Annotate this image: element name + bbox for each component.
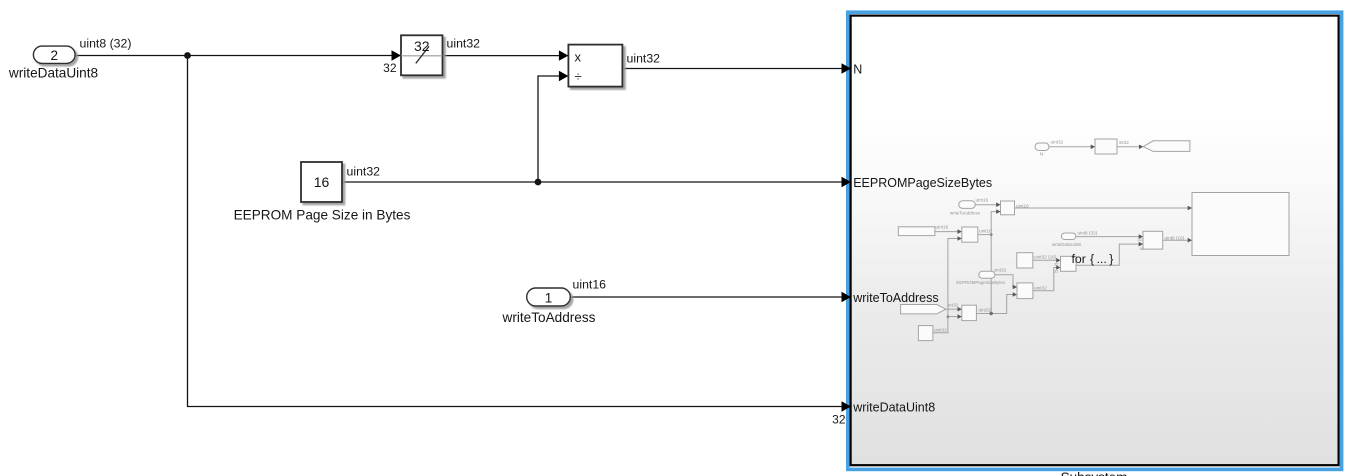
svg-text:int32: int32 bbox=[1119, 140, 1130, 145]
svg-text:writeDataUint8: writeDataUint8 bbox=[8, 65, 98, 80]
svg-text:32: 32 bbox=[1138, 237, 1143, 242]
svg-text:16: 16 bbox=[314, 174, 330, 190]
svg-text:32: 32 bbox=[414, 38, 430, 54]
svg-text:EEPROMPageSizeBytes: EEPROMPageSizeBytes bbox=[956, 280, 1006, 285]
svg-text:for: for bbox=[1072, 252, 1086, 266]
svg-text:uint16: uint16 bbox=[976, 198, 989, 203]
svg-text:EEPROM Page Size in Bytes: EEPROM Page Size in Bytes bbox=[234, 207, 411, 222]
svg-text:N: N bbox=[853, 62, 862, 76]
svg-text:16: 16 bbox=[1139, 246, 1144, 251]
svg-text:uint32: uint32 bbox=[934, 327, 947, 332]
svg-text:uint32: uint32 bbox=[1034, 285, 1047, 290]
svg-text:1: 1 bbox=[545, 290, 553, 305]
svg-text:uint32: uint32 bbox=[994, 267, 1007, 272]
svg-text:uint16: uint16 bbox=[936, 225, 949, 230]
svg-text:uint32: uint32 bbox=[979, 308, 992, 313]
svg-text:int32: int32 bbox=[948, 303, 959, 308]
svg-text:uint16: uint16 bbox=[1016, 204, 1029, 209]
svg-text:uint32 (16): uint32 (16) bbox=[1034, 254, 1057, 259]
svg-text:uint32: uint32 bbox=[1051, 139, 1064, 144]
svg-text:x: x bbox=[575, 50, 582, 65]
svg-text:32: 32 bbox=[1054, 261, 1059, 266]
svg-text:uint32: uint32 bbox=[627, 51, 661, 65]
svg-text:uint32: uint32 bbox=[447, 37, 481, 51]
svg-text:Subsystem: Subsystem bbox=[1061, 470, 1128, 476]
svg-text:÷: ÷ bbox=[575, 69, 582, 84]
svg-text:uint8 (32): uint8 (32) bbox=[1078, 231, 1098, 236]
svg-text:writeToAddress: writeToAddress bbox=[502, 310, 596, 325]
svg-text:writeDataUint8: writeDataUint8 bbox=[1052, 242, 1081, 247]
svg-text:uint8 (32): uint8 (32) bbox=[80, 36, 132, 50]
svg-text:32: 32 bbox=[1054, 268, 1059, 273]
svg-text:uint8 (16): uint8 (16) bbox=[1165, 236, 1185, 241]
svg-text:2: 2 bbox=[50, 48, 58, 63]
svg-text:... }: ... } bbox=[1097, 252, 1114, 266]
svg-text:N: N bbox=[1040, 152, 1043, 157]
svg-text:32: 32 bbox=[383, 61, 397, 75]
svg-text:{: { bbox=[1090, 252, 1094, 266]
svg-text:EEPROMPageSizeBytes: EEPROMPageSizeBytes bbox=[853, 176, 992, 190]
svg-text:uint32: uint32 bbox=[347, 165, 381, 179]
svg-text:uint16: uint16 bbox=[979, 229, 992, 234]
svg-text:uint16: uint16 bbox=[573, 277, 607, 291]
svg-text:writeToAddress: writeToAddress bbox=[950, 211, 981, 216]
svg-text:32: 32 bbox=[832, 413, 846, 427]
svg-text:writeDataUint8: writeDataUint8 bbox=[852, 401, 935, 415]
svg-text:writeToAddress: writeToAddress bbox=[852, 291, 938, 305]
